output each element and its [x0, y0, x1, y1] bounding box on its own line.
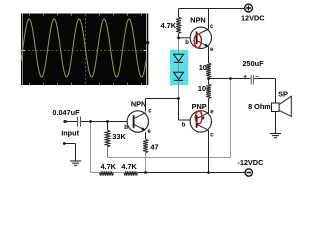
- svg-text:47: 47: [150, 142, 158, 151]
- svg-text:PNP: PNP: [192, 102, 207, 111]
- svg-text:10: 10: [198, 84, 206, 93]
- svg-text:250uF: 250uF: [243, 59, 265, 68]
- svg-text:4.7K: 4.7K: [161, 21, 177, 30]
- svg-text:SP: SP: [278, 89, 288, 98]
- svg-text:12VDC: 12VDC: [241, 14, 265, 23]
- svg-text:–: –: [255, 73, 259, 80]
- svg-text:0.047uF: 0.047uF: [52, 108, 80, 117]
- svg-text:b: b: [185, 40, 189, 46]
- svg-text:Input: Input: [61, 129, 79, 138]
- svg-text:+: +: [243, 74, 247, 81]
- svg-text:4.7K: 4.7K: [101, 162, 117, 171]
- svg-text:NPN: NPN: [131, 100, 146, 109]
- svg-text:4.7K: 4.7K: [121, 162, 137, 171]
- svg-text:b: b: [182, 123, 186, 129]
- svg-text:10: 10: [199, 63, 207, 72]
- svg-text:-12VDC: -12VDC: [237, 158, 264, 167]
- svg-text:NPN: NPN: [190, 16, 205, 25]
- svg-text:33K: 33K: [112, 132, 126, 141]
- svg-text:8 Ohm: 8 Ohm: [248, 102, 271, 111]
- svg-text:b: b: [124, 125, 128, 131]
